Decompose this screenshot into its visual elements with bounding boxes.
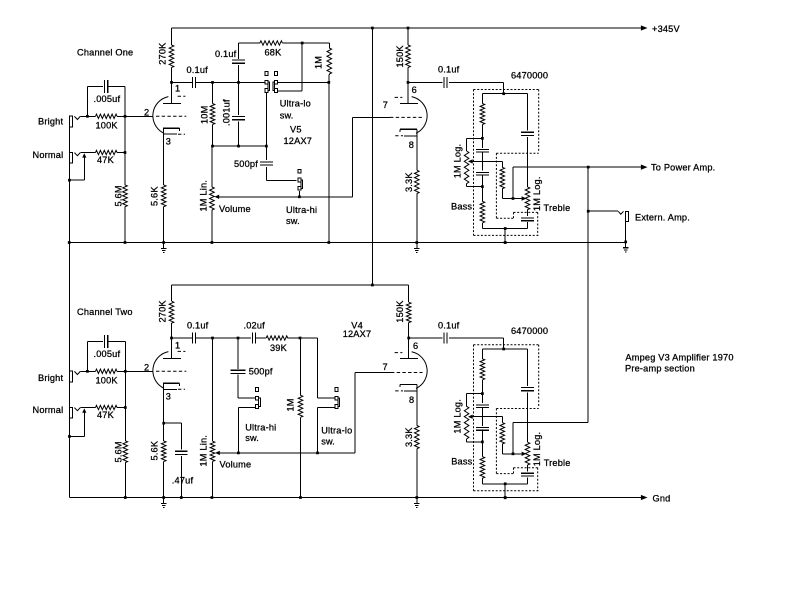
svg-text:150K: 150K: [395, 300, 405, 323]
svg-text:Channel One: Channel One: [77, 48, 133, 58]
svg-text:Ampeg V3 Amplifier 1970: Ampeg V3 Amplifier 1970: [625, 352, 733, 362]
svg-text:6470000: 6470000: [511, 326, 548, 336]
svg-text:Ultra-hi: Ultra-hi: [286, 205, 317, 215]
svg-text:3.3K: 3.3K: [404, 427, 414, 447]
svg-text:sw.: sw.: [280, 110, 294, 120]
svg-text:Gnd: Gnd: [653, 493, 671, 503]
svg-text:.001uf: .001uf: [222, 99, 232, 126]
svg-text:1M: 1M: [314, 56, 324, 69]
svg-text:0.1uf: 0.1uf: [438, 64, 460, 74]
svg-text:5.6K: 5.6K: [150, 186, 160, 206]
svg-text:sw.: sw.: [245, 433, 259, 443]
svg-text:100K: 100K: [96, 376, 119, 386]
svg-text:5.6K: 5.6K: [150, 440, 160, 460]
svg-text:Ultra-lo: Ultra-lo: [321, 425, 352, 435]
svg-text:.02uf: .02uf: [244, 321, 266, 331]
svg-text:500pf: 500pf: [249, 367, 273, 377]
svg-text:6: 6: [413, 341, 418, 351]
svg-text:Channel Two: Channel Two: [77, 307, 133, 317]
svg-text:270K: 270K: [158, 42, 168, 65]
svg-text:Bright: Bright: [38, 373, 63, 383]
svg-text:Volume: Volume: [219, 204, 251, 214]
svg-text:Ultra-lo: Ultra-lo: [280, 98, 311, 108]
svg-text:12AX7: 12AX7: [343, 329, 372, 339]
svg-text:.47uf: .47uf: [172, 475, 194, 485]
svg-text:Normal: Normal: [33, 405, 64, 415]
svg-text:2: 2: [144, 362, 149, 372]
svg-text:Extern. Amp.: Extern. Amp.: [635, 212, 690, 222]
svg-text:68K: 68K: [265, 48, 283, 58]
svg-text:8: 8: [409, 140, 414, 150]
svg-text:7: 7: [383, 100, 388, 110]
svg-text:270K: 270K: [158, 300, 168, 323]
svg-text:1: 1: [175, 341, 180, 351]
svg-text:Volume: Volume: [220, 459, 252, 469]
svg-text:150K: 150K: [395, 45, 405, 68]
svg-text:47K: 47K: [97, 410, 115, 420]
svg-text:0.1uf: 0.1uf: [187, 65, 209, 75]
svg-text:1M Log.: 1M Log.: [532, 432, 542, 467]
svg-text:0.1uf: 0.1uf: [438, 321, 460, 331]
svg-text:Bright: Bright: [38, 116, 63, 126]
svg-text:Ultra-hi: Ultra-hi: [245, 423, 276, 433]
svg-text:1: 1: [175, 83, 180, 93]
svg-text:Normal: Normal: [33, 150, 64, 160]
svg-text:0.1uf: 0.1uf: [187, 321, 209, 331]
svg-text:sw.: sw.: [286, 216, 300, 226]
svg-text:1M Lin.: 1M Lin.: [199, 435, 209, 467]
svg-text:Treble: Treble: [544, 203, 571, 213]
svg-text:.005uf: .005uf: [94, 349, 121, 359]
svg-text:.005uf: .005uf: [94, 94, 121, 104]
svg-text:100K: 100K: [96, 121, 119, 131]
svg-text:1M: 1M: [286, 398, 296, 411]
svg-text:0.1uf: 0.1uf: [215, 49, 237, 59]
svg-text:5.6M: 5.6M: [114, 441, 124, 462]
svg-text:1M Lin.: 1M Lin.: [199, 180, 209, 212]
svg-text:To Power Amp.: To Power Amp.: [651, 163, 715, 173]
svg-text:10M: 10M: [200, 106, 210, 124]
svg-text:39K: 39K: [270, 343, 288, 353]
svg-text:8: 8: [409, 395, 414, 405]
svg-text:2: 2: [144, 107, 149, 117]
svg-text:Pre-amp section: Pre-amp section: [625, 363, 695, 373]
svg-text:Treble: Treble: [544, 458, 571, 468]
svg-text:V5: V5: [290, 125, 302, 135]
svg-text:47K: 47K: [97, 155, 115, 165]
svg-text:+345V: +345V: [652, 24, 680, 34]
svg-text:1M Log.: 1M Log.: [532, 176, 542, 211]
svg-text:12AX7: 12AX7: [284, 136, 313, 146]
svg-text:3: 3: [166, 391, 171, 401]
svg-text:1M Log.: 1M Log.: [453, 144, 463, 179]
svg-text:7: 7: [383, 362, 388, 372]
svg-text:1M Log.: 1M Log.: [453, 399, 463, 434]
svg-text:sw.: sw.: [321, 437, 335, 447]
svg-text:Bass: Bass: [451, 457, 472, 467]
svg-text:3.3K: 3.3K: [404, 172, 414, 192]
svg-text:6: 6: [412, 85, 417, 95]
svg-text:Bass: Bass: [451, 202, 472, 212]
svg-text:6470000: 6470000: [511, 71, 548, 81]
svg-text:5.6M: 5.6M: [114, 185, 124, 206]
svg-text:500pf: 500pf: [234, 159, 258, 169]
svg-text:3: 3: [166, 136, 171, 146]
